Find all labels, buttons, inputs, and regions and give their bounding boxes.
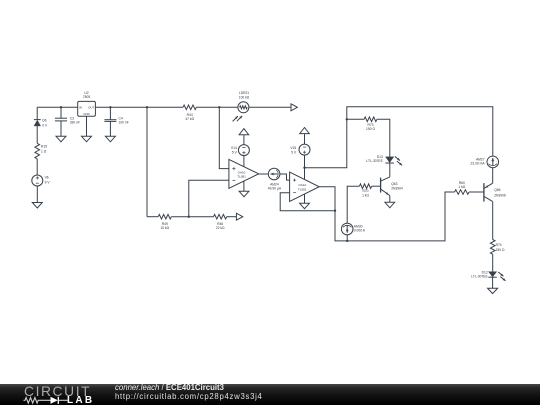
svg-text:10 kΩ: 10 kΩ xyxy=(160,226,169,230)
svg-text:330 nF: 330 nF xyxy=(70,121,80,125)
svg-text:GND: GND xyxy=(83,112,89,116)
svg-text:IN: IN xyxy=(79,105,82,109)
svg-text:100 kΩ: 100 kΩ xyxy=(239,96,250,100)
svg-text:LTL-307EE: LTL-307EE xyxy=(366,159,383,163)
svg-text:1 kΩ: 1 kΩ xyxy=(362,193,369,197)
svg-text:TL081: TL081 xyxy=(298,187,307,191)
svg-text:7805: 7805 xyxy=(83,95,91,99)
svg-text:R74: R74 xyxy=(496,243,502,247)
svg-text:5 V: 5 V xyxy=(232,150,238,154)
svg-text:1 kΩ: 1 kΩ xyxy=(458,185,465,189)
svg-text:49.90 µA: 49.90 µA xyxy=(268,187,282,191)
svg-text:V15: V15 xyxy=(290,146,296,150)
svg-text:2N3904: 2N3904 xyxy=(391,187,403,191)
svg-text:Q66: Q66 xyxy=(494,188,500,192)
svg-text:V14: V14 xyxy=(231,146,237,150)
svg-text:0.000 A: 0.000 A xyxy=(354,229,366,233)
svg-text:TL081: TL081 xyxy=(237,175,246,179)
svg-text:22 kΩ: 22 kΩ xyxy=(216,226,225,230)
svg-text:2N3906: 2N3906 xyxy=(494,194,506,198)
svg-text:LTL-307EE: LTL-307EE xyxy=(471,275,488,279)
svg-text:150 Ω: 150 Ω xyxy=(496,248,505,252)
svg-text:150 Ω: 150 Ω xyxy=(366,127,375,131)
svg-text:5 V: 5 V xyxy=(291,150,297,154)
svg-text:23.30 mA: 23.30 mA xyxy=(470,162,485,166)
svg-text:0 V: 0 V xyxy=(42,123,48,127)
svg-text:LDR21: LDR21 xyxy=(239,91,249,95)
svg-text:100 nF: 100 nF xyxy=(119,121,129,125)
svg-text:OUT: OUT xyxy=(88,105,94,109)
svg-text:R49: R49 xyxy=(162,222,168,226)
svg-text:47 kΩ: 47 kΩ xyxy=(185,117,194,121)
svg-text:R46: R46 xyxy=(217,222,223,226)
svg-text:R15: R15 xyxy=(41,145,47,149)
svg-text:9 V: 9 V xyxy=(45,181,51,185)
svg-text:D6: D6 xyxy=(42,119,46,123)
svg-text:Q63: Q63 xyxy=(391,182,397,186)
svg-text:V6: V6 xyxy=(45,176,49,180)
svg-text:1 Ω: 1 Ω xyxy=(41,149,47,153)
